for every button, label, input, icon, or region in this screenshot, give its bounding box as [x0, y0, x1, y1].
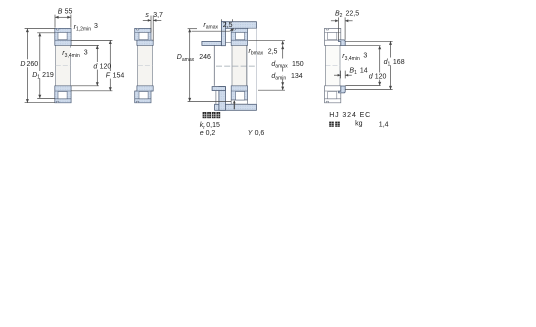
svg-text:2,5: 2,5: [223, 22, 233, 29]
svg-text:120: 120: [375, 73, 387, 80]
B2 arrow left: [335, 19, 338, 22]
dimension d arrow top: [96, 45, 99, 49]
dimension D1 219 line (broken by text): [39, 33, 41, 71]
svg-text:F: F: [106, 72, 111, 79]
dimension D1 219 extension lines: [37, 32, 55, 34]
d arrow top (view 4): [378, 46, 381, 50]
d1 arrow top: [389, 41, 392, 45]
dimension d 120 line: [96, 45, 98, 62]
shaft right end: [246, 45, 248, 85]
bearing view 3 roller top (white): [236, 32, 245, 39]
svg-text:3: 3: [363, 52, 367, 59]
svg-text:1,4: 1,4: [379, 121, 389, 128]
bearing view 2 snap ring groove notches: [136, 29, 138, 30]
Damax arrow top: [188, 29, 191, 33]
bearing view 1 snap ring groove notches: [57, 29, 59, 30]
svg-text:260: 260: [27, 61, 39, 68]
B2 arrow right: [345, 19, 348, 22]
dimension d 120 (view 4): [345, 45, 380, 47]
dimension d arrow bottom: [96, 82, 99, 86]
dimension D1 arrow top: [38, 33, 41, 37]
bearing view 4 bore cylinder: [325, 46, 340, 86]
shaft step edge bottom: [215, 91, 217, 105]
dimension F 154 extension lines: [71, 39, 112, 41]
dimension s 3,7 arrows: [143, 19, 151, 21]
ra fillet mark bottom: [233, 101, 235, 109]
svg-text:0,6: 0,6: [255, 130, 265, 137]
svg-text:0,2: 0,2: [206, 130, 216, 137]
dimension F arrow top: [109, 40, 112, 44]
bearing view 3 bottom half rings: [231, 86, 247, 100]
damin arrow top: [281, 46, 284, 50]
bearing view 2 roller bottom (white): [139, 92, 148, 99]
housing left wall bottom: [219, 87, 226, 111]
bearing view 4 roller bottom (white): [328, 92, 337, 99]
bearing view 1 centerline: [56, 65, 70, 67]
svg-text:3,7: 3,7: [153, 12, 163, 19]
dimension da max / da min: [248, 40, 285, 42]
s dimension face lines: [150, 16, 152, 33]
bearing view 3 bottom outer band (clearance, white): [231, 100, 247, 104]
bearing view 1 bottom half rings: [55, 86, 71, 103]
dimension B2 22,5: [337, 17, 339, 40]
dimension B arrow left: [55, 16, 59, 19]
HJ angle ring bottom (blue): [339, 86, 346, 93]
B1 arrow right: [345, 74, 348, 77]
bearing view 4 bottom half rings: [325, 86, 341, 103]
dimension F 154 line: [109, 40, 111, 71]
bearing view 4 top half rings: [325, 28, 341, 45]
dimension D1 arrow bottom: [38, 95, 41, 99]
svg-text:e: e: [200, 130, 204, 137]
Damax arrow bottom: [188, 98, 191, 102]
bearing view 1 ring internal boundary lines: [55, 31, 71, 33]
svg-text:s: s: [145, 12, 149, 19]
bearing view 3 snap ring groove notches: [233, 29, 235, 30]
damax arrow top: [281, 41, 284, 45]
svg-text:kg: kg: [355, 121, 363, 128]
svg-text:55: 55: [65, 9, 73, 16]
housing bottom band: [215, 104, 257, 110]
d1 arrow bottom: [389, 86, 392, 90]
dimension B 55 extension lines: [54, 15, 56, 28]
dimension d1 168: [345, 40, 392, 42]
shaft shoulder ledge bottom: [212, 87, 225, 91]
svg-text:154: 154: [113, 72, 125, 79]
bearing view 2 bore cylinder: [138, 46, 153, 86]
mass label (Chinese): [329, 122, 334, 127]
bearing view 4 ring internal boundary lines: [325, 31, 341, 33]
svg-text:2,5: 2,5: [268, 48, 278, 55]
bearing view 1 top half rings: [55, 28, 71, 45]
bearing view 4 centerline: [326, 65, 340, 67]
d arrow bottom (view 4): [378, 82, 381, 86]
svg-text:3: 3: [94, 23, 98, 30]
bearing view 3 roller bottom (white): [236, 92, 245, 101]
dimension D 260 extension lines: [25, 28, 55, 30]
shaft shoulder ledge top: [202, 41, 221, 45]
bearing view 3 top half rings: [231, 28, 247, 45]
damax arrow bottom: [281, 87, 284, 91]
bearing view 2 bottom half rings: [135, 86, 154, 103]
bearing view 1 bore cylinder: [56, 46, 71, 86]
bearing view 2 roller top (white): [139, 32, 148, 39]
bearing view 2 top half rings: [135, 28, 154, 45]
svg-text:D: D: [20, 61, 25, 68]
bearing view 4 roller top (white): [328, 32, 337, 39]
dimension D arrow top: [26, 29, 29, 33]
housing left wall: [221, 22, 225, 46]
bearing view 3 ring internal boundary lines: [231, 31, 247, 33]
dimension F arrow bottom: [109, 87, 112, 91]
shaft centerline: [216, 65, 255, 67]
svg-text:HJ 324 EC: HJ 324 EC: [329, 112, 371, 119]
dimension Da max 246: [188, 28, 197, 30]
dimension B 55 line: [55, 16, 71, 18]
bearing view 1 roller bottom (white): [58, 92, 67, 99]
bearing view 2 centerline: [138, 65, 152, 67]
B1 arrow left: [338, 74, 341, 77]
bearing view 4 snap ring groove notches: [326, 29, 328, 30]
housing right column (white, faint right edge): [248, 29, 256, 105]
bearing view 1 roller top (white): [58, 32, 67, 39]
ra leader line: [192, 30, 230, 32]
damin arrow bottom: [281, 82, 284, 86]
dimension B1 14: [340, 71, 342, 79]
da level line to bearing: [225, 42, 231, 44]
shaft: [214, 45, 247, 85]
calculation factors heading (Chinese): [203, 112, 207, 118]
svg-text:3: 3: [84, 50, 88, 57]
HJ angle ring top (blue): [339, 40, 346, 46]
dimension D arrow bottom: [26, 99, 29, 103]
dimension D 260 line (broken by text): [26, 29, 28, 60]
bearing view 3 bore cylinder: [232, 46, 247, 86]
dimension d 120 extension lines: [71, 44, 99, 46]
svg-text:120: 120: [100, 63, 112, 70]
housing top band: [221, 22, 256, 29]
ra 2,5 extension ticks: [221, 19, 223, 22]
ra leader arrow: [231, 28, 234, 31]
svg-text:B: B: [58, 9, 63, 16]
shaft left end: [213, 45, 215, 85]
dimension B arrow right: [67, 16, 71, 19]
bearing view 2 ring internal boundary lines: [135, 31, 151, 33]
